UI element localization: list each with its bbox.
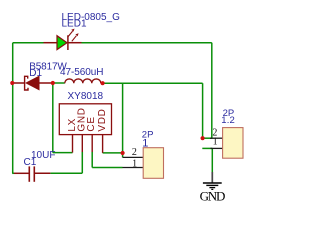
LED LED1 emission arrow 2: [72, 33, 79, 41]
svg-text:1: 1: [213, 137, 218, 148]
ground symbol bar 3: [209, 187, 215, 189]
junction node dot P2 pin2: [201, 136, 205, 140]
svg-text:CE: CE: [86, 116, 97, 131]
LED LED1 triangle: [57, 36, 67, 50]
wire VDD pin to node: [103, 152, 123, 154]
wire left rail vertical: [12, 43, 14, 174]
ground symbol stem: [211, 172, 213, 183]
wire node to P1 pin2: [122, 153, 124, 157]
svg-text:1: 1: [142, 137, 148, 149]
LED LED1 cathode lead: [68, 42, 82, 44]
ground symbol bar 4: [211, 188, 213, 190]
svg-text:1: 1: [132, 159, 137, 170]
wire CE pin vertical: [91, 152, 93, 168]
op-amp U1 XY8018 body: [59, 104, 111, 135]
ground symbol bar 2: [206, 184, 218, 186]
svg-text:C1: C1: [24, 157, 37, 168]
diode D1 schottky bar: [25, 76, 28, 90]
LED LED1 anode lead: [44, 42, 58, 44]
diode D1 cathode lead: [12, 82, 24, 84]
LED LED1 cathode bar: [67, 35, 69, 50]
junction node dot inductor output: [101, 81, 105, 85]
wire inductor output row: [103, 82, 203, 84]
wire diode row green segment to inductor: [53, 82, 65, 84]
junction node dot diode right: [51, 81, 55, 85]
wire vertical from inductor row down to P2 pin 2: [202, 83, 204, 138]
wire P2 pin2 row green: [203, 137, 213, 139]
connector P1 body: [143, 148, 163, 179]
svg-text:D1: D1: [29, 68, 42, 79]
svg-text:2: 2: [132, 147, 137, 158]
wire CE to P1 pin1: [92, 167, 122, 169]
junction node dot VDD branch: [121, 151, 125, 155]
connector P2 body: [223, 128, 243, 159]
connector P2 pin 1 line: [211, 147, 223, 149]
wire T-branch down to node at VDD row: [122, 83, 124, 153]
LED LED1 emission arrow 1: [68, 29, 74, 37]
U1 pin stub CE: [91, 135, 93, 152]
connector P1 pin 2 line: [123, 156, 143, 158]
wire LX net vertical: [52, 83, 54, 153]
connector P2 pin 2 line: [210, 137, 223, 139]
svg-text:1.2: 1.2: [221, 115, 235, 126]
wire capacitor left to rail: [12, 172, 14, 174]
U1 pin stub LX: [72, 135, 74, 153]
ground symbol bar 1: [203, 182, 222, 184]
svg-text:GND: GND: [200, 188, 226, 203]
capacitor C1 left lead: [14, 172, 29, 174]
wire right rail vertical down to P2 pin 2: [211, 43, 213, 139]
svg-text:47-560uH: 47-560uH: [60, 67, 104, 78]
diode D1 triangle: [26, 76, 39, 89]
capacitor C1 right plate: [33, 166, 35, 181]
svg-text:VDD: VDD: [97, 108, 108, 131]
capacitor C1 left plate: [28, 166, 30, 181]
wire P2 pin1 down to ground: [211, 148, 213, 172]
wire top rail right segment: [82, 42, 212, 44]
wire LX net horizontal: [53, 152, 73, 154]
junction node dot diode left: [10, 81, 14, 85]
connector P1 pin 1 line: [123, 167, 144, 169]
svg-text:XY8018: XY8018: [68, 91, 104, 102]
U1 pin stub VDD: [102, 135, 104, 153]
wire GND pin to capacitor: [50, 172, 82, 174]
svg-text:LED1: LED1: [62, 18, 87, 29]
wire GND pin vertical: [81, 152, 83, 173]
capacitor C1 right lead: [34, 172, 50, 174]
inductor L 47-560uH arcs: [65, 79, 101, 83]
wire top rail left segment: [13, 42, 44, 44]
diode D1 anode lead: [39, 82, 53, 84]
wire P2 pin1 row green: [202, 147, 212, 149]
U1 pin stub GND: [81, 135, 83, 152]
